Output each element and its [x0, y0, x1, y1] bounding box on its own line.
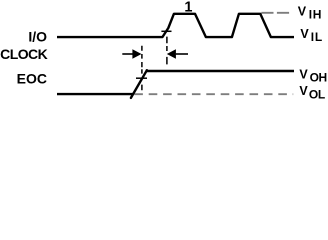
vertical dashed line at EOC edge: [141, 46, 143, 91]
svg-text:V: V: [298, 4, 307, 18]
svg-text:V: V: [299, 67, 308, 81]
label VOL: [299, 84, 324, 101]
svg-text:OL: OL: [309, 87, 325, 101]
left measurement arrow: [122, 49, 141, 58]
svg-text:IL: IL: [311, 30, 323, 44]
svg-text:CLOCK: CLOCK: [0, 46, 47, 62]
wire EOC high level: [146, 70, 294, 72]
svg-text:OH: OH: [310, 70, 327, 84]
wire I/O CLOCK waveform: [57, 14, 294, 37]
label VIL: [300, 27, 323, 44]
svg-text:I/O: I/O: [28, 29, 47, 45]
clock edge measurement tick: [161, 30, 171, 32]
EOC edge measurement tick: [136, 77, 147, 79]
right measurement arrow: [167, 49, 188, 58]
svg-text:IH: IH: [309, 7, 322, 21]
svg-text:V: V: [300, 27, 309, 41]
label I/O CLOCK: [0, 29, 47, 62]
VOL reference dashed line: [134, 93, 293, 95]
vertical dashed line at clock edge: [166, 37, 168, 65]
label VIH: [298, 4, 322, 21]
label VOH: [299, 67, 326, 84]
wire EOC low level: [57, 93, 134, 95]
svg-text:V: V: [299, 84, 308, 98]
VIH reference dashed line: [261, 12, 289, 14]
wire EOC rising edge: [131, 70, 147, 98]
svg-text:EOC: EOC: [17, 70, 47, 86]
